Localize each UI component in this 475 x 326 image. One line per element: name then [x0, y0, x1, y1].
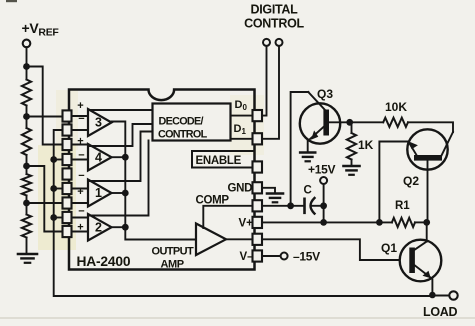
feedback bus B [54, 130, 433, 296]
node J0 [23, 63, 30, 70]
node Q3 collector [346, 119, 353, 126]
svg-text:10K: 10K [385, 100, 407, 114]
svg-text:1K: 1K [358, 138, 374, 152]
svg-text:−: − [78, 206, 84, 218]
node B-2 [50, 214, 57, 221]
wire pin stub [72, 202, 89, 204]
svg-text:+: + [77, 100, 83, 112]
transistor Q3 [300, 103, 340, 143]
svg-text:DECODE/: DECODE/ [159, 116, 204, 128]
wire tap J3 to pin +1 [27, 202, 63, 204]
op-amp 1 [88, 180, 112, 207]
svg-text:GND: GND [228, 183, 253, 195]
transistor Q2 [407, 129, 447, 169]
node R1 right [423, 219, 430, 226]
terminal LOAD [449, 291, 457, 299]
svg-text:R1: R1 [395, 200, 410, 212]
wire to load [432, 295, 449, 297]
svg-text:3: 3 [95, 116, 102, 130]
wire pin stub [72, 144, 89, 146]
svg-text:−: − [78, 170, 84, 182]
terminal D0 [263, 39, 270, 46]
wire gnd pin [262, 188, 275, 194]
node J1 [23, 113, 30, 120]
pin box L1 [63, 110, 72, 121]
svg-text:AMP: AMP [161, 259, 184, 271]
ground ladder [18, 253, 37, 256]
pin box L9 [63, 226, 72, 237]
svg-text:–15V: –15V [293, 250, 320, 264]
wire pin stub [72, 159, 89, 161]
pin box L7 [63, 197, 72, 208]
output amp [196, 224, 226, 256]
wire +15V down [323, 184, 325, 222]
wire Q2 bottom [427, 161, 429, 223]
wire select amp3 [88, 109, 153, 111]
resistor 1K [347, 133, 356, 160]
wire Q3 base [291, 92, 309, 206]
op-amp 3 [88, 109, 112, 136]
svg-text:CONTROL: CONTROL [244, 17, 304, 31]
ground gnd-pin [267, 192, 283, 195]
wire select amp1 [88, 132, 153, 182]
ground 1K [344, 165, 360, 168]
pin box OUT [253, 234, 263, 245]
wire Q2 emitter to R1 left [379, 142, 409, 223]
resistor 10K [383, 118, 408, 127]
svg-text:DIGITAL: DIGITAL [251, 3, 299, 17]
resistor ladder R-a [26, 67, 28, 80]
svg-text:LOAD: LOAD [423, 305, 457, 319]
pin box L4 [63, 154, 72, 165]
node output junction [122, 224, 129, 231]
wire V- [262, 255, 281, 257]
node Q1 emitter / load [429, 292, 436, 299]
svg-text:Q3: Q3 [317, 87, 333, 101]
svg-text:COMP: COMP [196, 195, 230, 207]
node output junction [122, 190, 129, 197]
resistor ladder R-d [26, 203, 28, 215]
svg-text:OUTPUT: OUTPUT [152, 246, 195, 258]
wire D1 internal [231, 138, 253, 140]
wire amp output [112, 156, 126, 158]
resistor ladder R-c [26, 166, 28, 174]
node J2 [23, 163, 30, 170]
wire 10K row [350, 121, 384, 123]
node output junction [122, 154, 129, 161]
wire pin stub [72, 231, 89, 233]
resistor ladder R-b [26, 117, 28, 129]
wire Q1 collector up [426, 222, 428, 241]
wire tap J0 to pin +4 [27, 67, 63, 145]
decode/control block [153, 104, 231, 141]
pin box L8 [63, 212, 72, 223]
svg-text:1: 1 [95, 186, 102, 200]
wire pin stub [72, 129, 89, 131]
wire Q3 emitter [307, 141, 309, 153]
wire output to Q1 base [262, 239, 399, 260]
wire pin stub [72, 217, 89, 219]
wire select amp4 [88, 124, 153, 146]
transistor Q1 [400, 240, 442, 282]
wire select amp2 [88, 141, 149, 216]
terminal +VREF [23, 40, 31, 48]
wire amp output [112, 226, 126, 228]
wire [26, 47, 28, 66]
pin box L6 [63, 183, 72, 194]
wire comp internal [203, 206, 252, 228]
svg-text:+: + [77, 186, 83, 198]
pin box D1 [253, 133, 263, 144]
wire comp external [262, 205, 305, 207]
svg-text:+: + [77, 136, 83, 148]
svg-text:Q2: Q2 [403, 174, 419, 188]
svg-text:−: − [78, 150, 84, 162]
pin box VM [253, 250, 263, 261]
wire pin stub [72, 188, 89, 190]
svg-text:HA-2400: HA-2400 [77, 254, 131, 269]
wire tap J1 to pin +3 [27, 116, 63, 118]
capacitor C [303, 199, 306, 213]
pin box COMP [253, 200, 263, 211]
svg-text:Q1: Q1 [381, 241, 397, 255]
svg-text:V+: V+ [239, 218, 254, 230]
node B-4 [50, 156, 57, 163]
wire 10K to Q2 collector [408, 122, 453, 132]
scan artifacts [6, 0, 17, 2]
terminal -15V [281, 253, 288, 260]
svg-text:+: + [77, 221, 83, 233]
svg-text:ENABLE: ENABLE [196, 155, 242, 167]
wire D1 external [262, 46, 279, 139]
wire amp output [112, 192, 126, 194]
svg-text:4: 4 [95, 150, 102, 164]
pin box L5 [63, 168, 72, 179]
pin box GND [253, 182, 263, 193]
pin box L3 [63, 139, 72, 150]
node +15V/V+ [320, 219, 327, 226]
wire D0 external [262, 46, 267, 116]
pin box D0 [253, 110, 263, 121]
terminal D1 [276, 39, 283, 46]
wire 1K top [351, 122, 353, 133]
svg-text:2: 2 [95, 220, 102, 234]
node R1 left [376, 219, 383, 226]
svg-text:C: C [304, 185, 312, 197]
op-amp 2 [88, 214, 112, 241]
node C right [320, 202, 327, 209]
resistor R1 [392, 218, 415, 227]
node comp/Q3 base [287, 202, 294, 209]
wire D0 internal [231, 115, 253, 117]
svg-text:CONTROL: CONTROL [158, 129, 208, 141]
svg-text:+15V: +15V [308, 163, 335, 177]
svg-text:−: − [78, 113, 84, 125]
op-amp IC HA-2400 body [69, 90, 255, 270]
pin box L2 [63, 124, 72, 135]
wire tap J2 to pin +2 [27, 166, 63, 232]
terminal +15V [320, 177, 327, 184]
pin box VP [253, 217, 263, 228]
enable block [192, 151, 255, 168]
node B-1 [50, 185, 57, 192]
wire Q1 emitter [415, 266, 431, 278]
pin box EN [253, 161, 263, 172]
ground Q3 [300, 151, 315, 154]
op-amp 4 [88, 144, 112, 171]
node J3 [23, 200, 30, 207]
wire V+ row [262, 221, 392, 223]
wire pin stub [72, 115, 89, 117]
wire output bus [112, 122, 197, 240]
